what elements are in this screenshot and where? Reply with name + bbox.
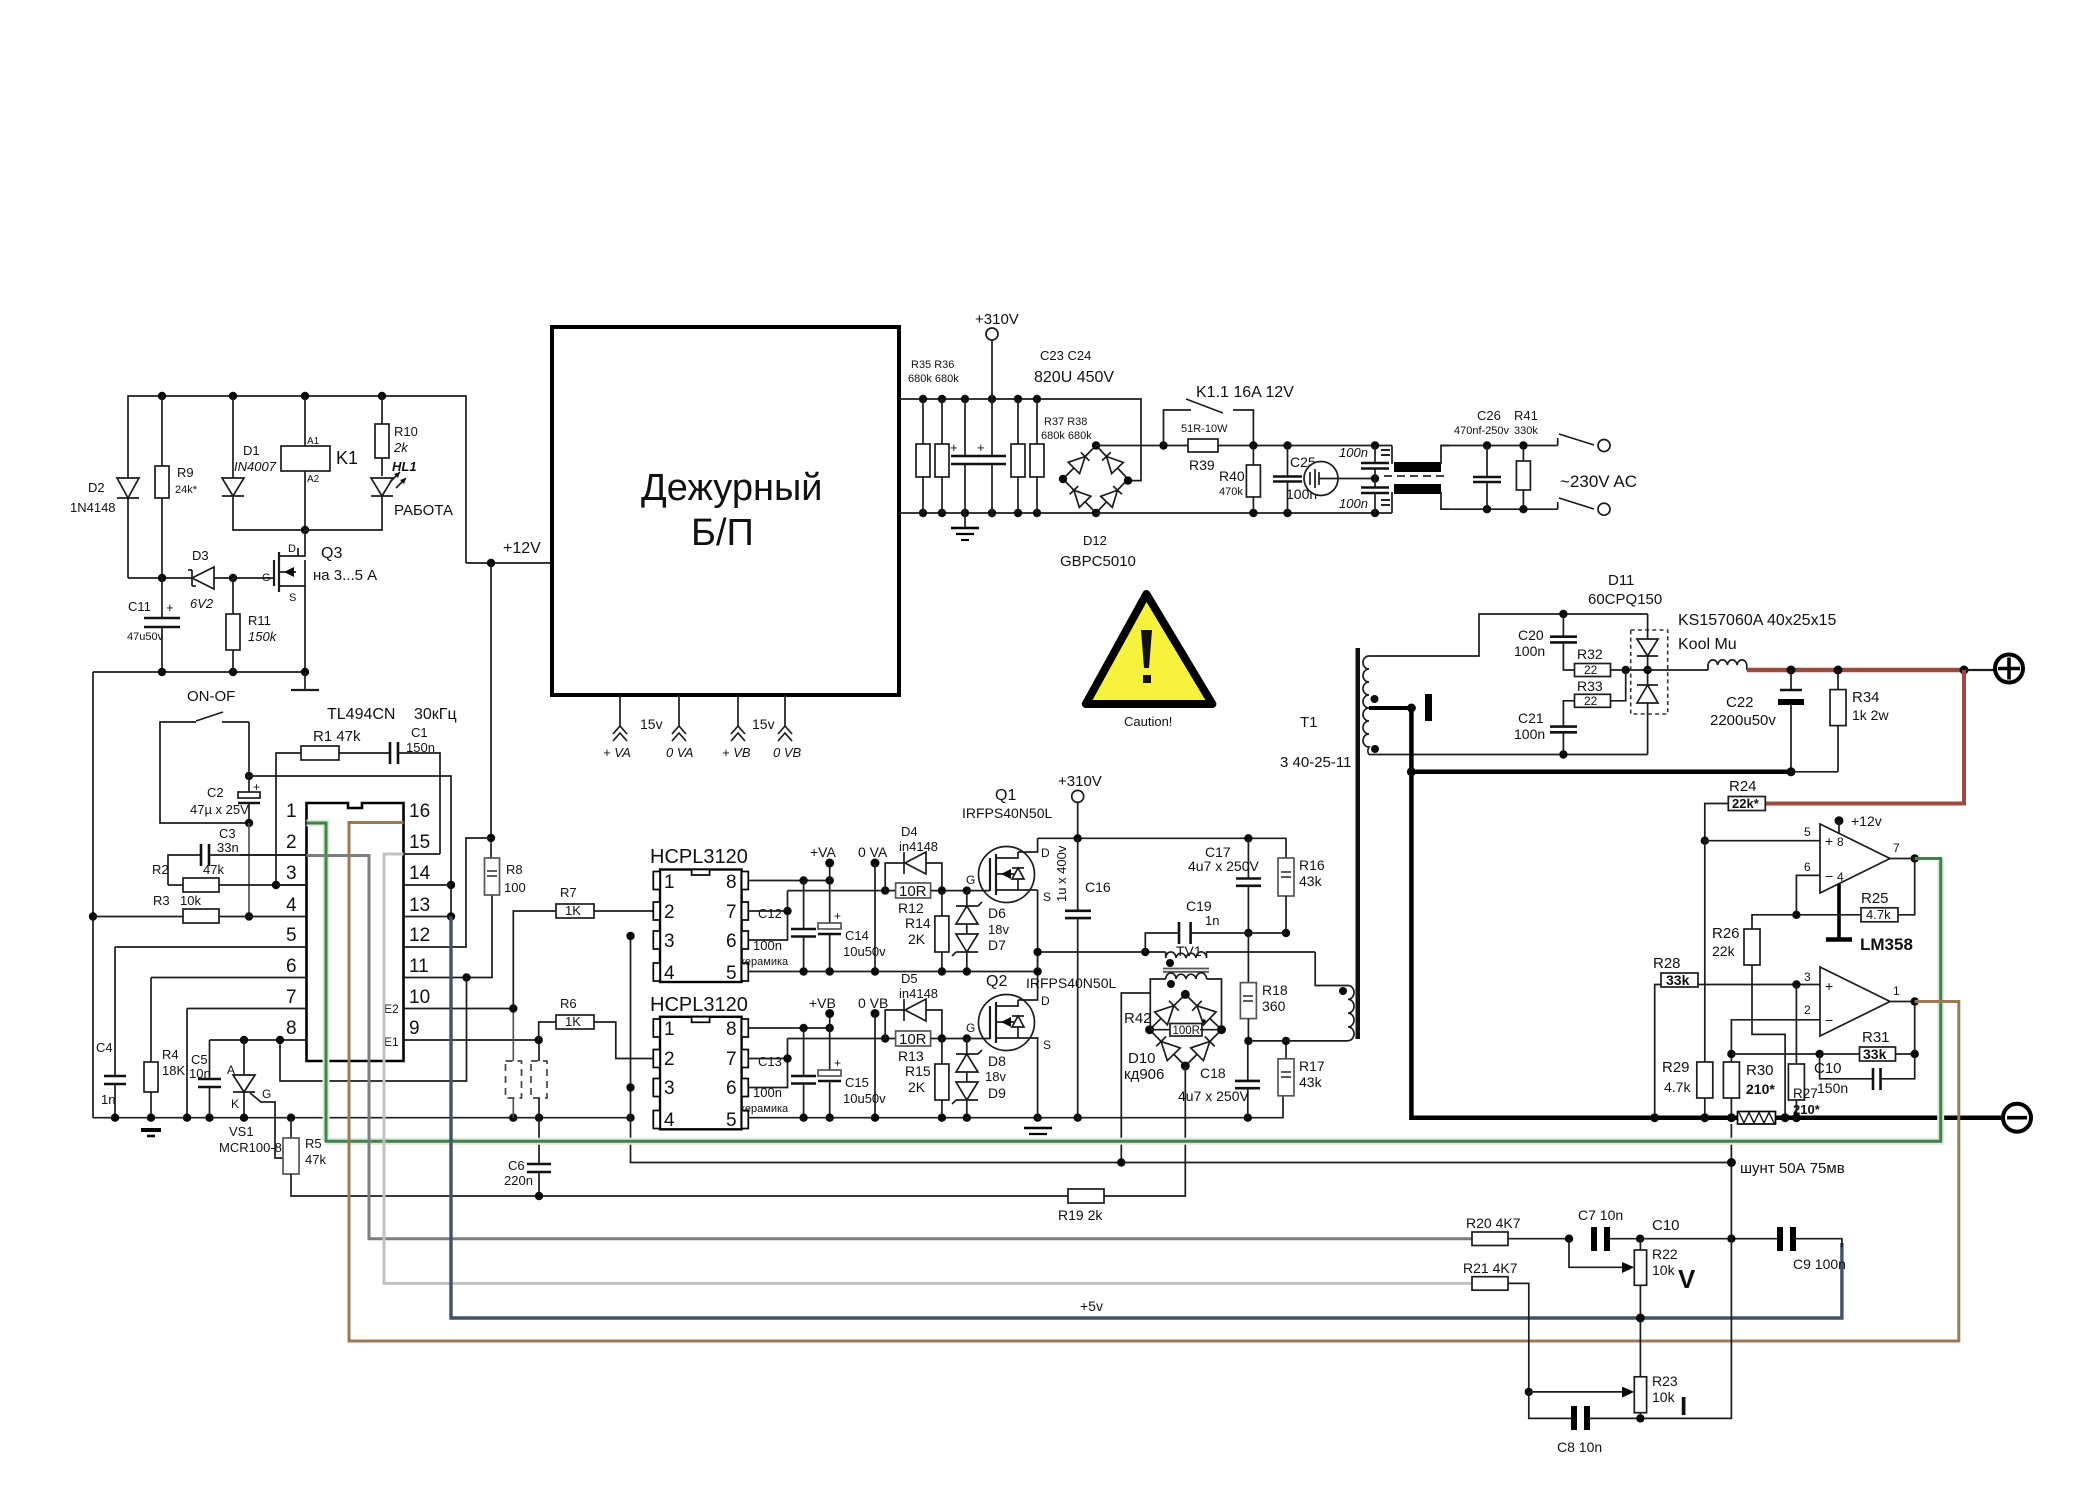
node pin6/R25/R26 — [1792, 911, 1800, 919]
svg-text:+: + — [166, 600, 174, 615]
capacitor C12 — [740, 881, 816, 971]
inductor Kool Mu — [1678, 612, 1836, 670]
svg-text:47k: 47k — [305, 1152, 326, 1167]
svg-text:R14: R14 — [905, 915, 931, 931]
resistor R25 — [1796, 859, 1914, 923]
svg-text:9: 9 — [409, 1018, 420, 1039]
svg-text:K1: K1 — [336, 448, 358, 468]
zener D7 — [952, 905, 1009, 970]
svg-text:D2: D2 — [88, 480, 105, 495]
capacitor C13 — [740, 1028, 816, 1118]
caution triangle — [1086, 594, 1213, 729]
svg-text:R26: R26 — [1712, 925, 1740, 942]
resistor R1 — [276, 728, 390, 885]
svg-text:C22: C22 — [1726, 694, 1754, 711]
svg-text:D3: D3 — [192, 548, 209, 563]
capacitor C3 — [168, 826, 307, 885]
svg-text:S: S — [1043, 890, 1051, 904]
wire pin8 row B — [748, 1027, 829, 1029]
LED HL1 — [305, 459, 453, 530]
svg-text:−: − — [1825, 868, 1833, 884]
resistor R35 — [916, 399, 930, 513]
svg-text:C26: C26 — [1477, 408, 1501, 423]
zener D9 — [952, 1053, 1006, 1118]
wire 0VA row A — [748, 890, 1037, 972]
resistor R5 — [283, 1118, 1068, 1196]
capacitor C17 — [1188, 838, 1261, 933]
svg-text:10: 10 — [409, 987, 430, 1008]
svg-text:470k: 470k — [1219, 486, 1243, 498]
zener D3 — [188, 548, 274, 611]
svg-text:керамика: керамика — [740, 956, 789, 968]
svg-text:8: 8 — [726, 1019, 737, 1040]
svg-text:+: + — [1825, 833, 1833, 849]
wire R39 row — [1096, 445, 1188, 447]
svg-text:C3: C3 — [219, 826, 236, 841]
svg-text:D9: D9 — [988, 1085, 1006, 1101]
capacitor C10 — [1814, 1054, 1915, 1096]
capacitor C5 — [189, 1040, 221, 1118]
svg-text:+ VA: + VA — [603, 745, 631, 760]
svg-text:+5v: +5v — [1080, 1298, 1103, 1314]
svg-text:1K: 1K — [565, 1014, 581, 1029]
svg-text:3: 3 — [664, 1078, 675, 1099]
svg-text:K1.1 16A 12V: K1.1 16A 12V — [1196, 384, 1294, 401]
capacitor C26 — [1454, 408, 1510, 509]
svg-text:30кГц: 30кГц — [414, 706, 457, 723]
svg-text:10n: 10n — [189, 1066, 211, 1081]
MOSFET Q1 — [962, 787, 1052, 904]
svg-text:Kool Mu: Kool Mu — [1678, 636, 1737, 653]
svg-text:R23: R23 — [1652, 1373, 1678, 1389]
dots on 0V rail — [1650, 1113, 1659, 1122]
svg-text:C9 100n: C9 100n — [1793, 1256, 1846, 1272]
svg-text:15: 15 — [409, 832, 430, 853]
AC terminal bottom — [1558, 498, 1610, 515]
svg-text:R7: R7 — [560, 885, 577, 900]
svg-text:R13: R13 — [898, 1048, 924, 1064]
svg-text:2K: 2K — [908, 931, 926, 947]
svg-text:E2: E2 — [384, 1002, 399, 1016]
ground Q3 — [291, 672, 319, 690]
svg-text:10k: 10k — [180, 893, 201, 908]
svg-text:+310V: +310V — [975, 311, 1019, 328]
wire mains bottom rail right — [1096, 512, 1392, 514]
svg-text:R42: R42 — [1124, 1010, 1152, 1027]
gate row wire — [128, 577, 192, 579]
resistor R6 — [539, 996, 653, 1059]
svg-text:IRFPS40N50L: IRFPS40N50L — [962, 805, 1052, 821]
wire pin8 row A — [748, 880, 829, 882]
svg-text:4: 4 — [664, 963, 675, 984]
svg-text:V: V — [1678, 1264, 1696, 1294]
svg-text:Q1: Q1 — [995, 787, 1016, 804]
svg-text:C14: C14 — [845, 928, 869, 943]
wire top rail — [128, 396, 466, 563]
wire HV top rail — [899, 399, 1141, 481]
svg-text:1: 1 — [664, 872, 675, 893]
svg-text:6: 6 — [726, 1078, 737, 1099]
svg-text:14: 14 — [409, 863, 431, 884]
svg-text:R34: R34 — [1852, 689, 1880, 706]
wire brown I-set — [349, 823, 1959, 1342]
svg-text:−: − — [1825, 1012, 1833, 1028]
svg-text:D7: D7 — [988, 937, 1006, 953]
svg-text:2k: 2k — [393, 440, 409, 455]
svg-text:51R-10W: 51R-10W — [1181, 423, 1228, 435]
svg-text:0 VB: 0 VB — [858, 995, 888, 1011]
MOSFET Q2 — [938, 952, 1051, 1118]
svg-text:+: + — [977, 440, 985, 455]
connector 0VB — [778, 695, 792, 741]
svg-text:47k: 47k — [203, 862, 224, 877]
wire 0VB rail — [748, 1096, 1283, 1118]
relay contact K1.1 — [1164, 384, 1295, 446]
thick 0V rail top — [1411, 770, 1791, 775]
svg-text:7: 7 — [1893, 841, 1900, 855]
zener D6 — [956, 891, 982, 924]
svg-text:HL1: HL1 — [392, 459, 417, 474]
terminal +VB — [809, 995, 836, 1028]
svg-text:IRFPS40N50L: IRFPS40N50L — [1026, 975, 1116, 991]
diode D1 — [222, 396, 305, 530]
svg-text:D: D — [1041, 994, 1050, 1008]
svg-text:РАБОТА: РАБОТА — [394, 502, 453, 519]
svg-text:C1: C1 — [411, 725, 428, 740]
svg-text:150n: 150n — [1817, 1080, 1848, 1096]
resistor R39 — [1181, 423, 1288, 473]
svg-text:4: 4 — [1837, 870, 1844, 884]
svg-text:6: 6 — [726, 931, 737, 952]
svg-text:100n: 100n — [753, 938, 782, 953]
svg-text:11: 11 — [409, 956, 429, 977]
capacitor C2 — [190, 776, 260, 823]
svg-text:680k 680k: 680k 680k — [1041, 430, 1092, 442]
svg-text:D8: D8 — [988, 1053, 1006, 1069]
svg-text:5: 5 — [726, 963, 737, 984]
svg-text:D6: D6 — [988, 905, 1006, 921]
wire pin13 — [404, 916, 452, 918]
svg-text:R11: R11 — [248, 613, 271, 628]
capacitor C18 — [1178, 1041, 1260, 1118]
Y-cap symbol — [1304, 462, 1375, 496]
zener D8 — [956, 1039, 982, 1073]
svg-text:D: D — [288, 543, 296, 555]
svg-text:in4148: in4148 — [899, 986, 938, 1001]
resistor R41 — [1514, 408, 1538, 509]
svg-text:Q3: Q3 — [321, 545, 342, 562]
svg-text:A: A — [227, 1063, 235, 1077]
svg-text:18K: 18K — [162, 1063, 185, 1078]
svg-text:5: 5 — [726, 1110, 737, 1131]
pot R22 V — [1569, 1239, 1696, 1318]
svg-text:+12V: +12V — [503, 540, 541, 557]
svg-text:13: 13 — [409, 895, 430, 916]
svg-text:5: 5 — [1804, 825, 1811, 839]
svg-text:R3: R3 — [153, 893, 170, 908]
svg-text:R27: R27 — [1793, 1086, 1818, 1101]
dashed resistor E1 — [531, 1040, 547, 1118]
bottom row wire — [93, 671, 305, 673]
svg-text:C10: C10 — [1814, 1060, 1842, 1077]
svg-text:210*: 210* — [1746, 1081, 1775, 1097]
svg-text:C13: C13 — [758, 1054, 782, 1069]
svg-text:VS1: VS1 — [229, 1124, 254, 1139]
svg-text:C15: C15 — [845, 1075, 869, 1090]
resistor R27 — [1788, 985, 1820, 1118]
relay coil K1 — [281, 396, 358, 530]
terminal 0VA — [858, 844, 888, 970]
svg-text:1N4148: 1N4148 — [70, 500, 116, 515]
svg-text:43k: 43k — [1299, 873, 1323, 889]
capacitor C9 — [1780, 1227, 1846, 1272]
svg-text:R6: R6 — [560, 996, 577, 1011]
svg-text:6V2: 6V2 — [190, 596, 214, 611]
resistor R38 — [1030, 399, 1044, 513]
resistor R28 — [1653, 955, 1698, 1118]
svg-text:18v: 18v — [988, 922, 1009, 937]
svg-text:R25: R25 — [1861, 890, 1889, 907]
svg-text:D10: D10 — [1128, 1050, 1156, 1067]
svg-text:R20 4K7: R20 4K7 — [1466, 1215, 1521, 1231]
thick + rail — [1747, 668, 1964, 673]
shunt sense vertical — [1730, 1124, 1732, 1239]
svg-text:6: 6 — [286, 956, 297, 977]
svg-text:K: K — [231, 1097, 239, 1111]
svg-text:IN4007: IN4007 — [234, 459, 277, 474]
svg-text:~230V AC: ~230V AC — [1560, 472, 1637, 491]
resistor R11 — [226, 578, 278, 672]
wire green feedback — [307, 823, 1941, 1141]
wire pin8-pin11 bypass — [280, 978, 467, 1082]
svg-text:18v: 18v — [985, 1069, 1006, 1084]
wire pin11 to R8 — [404, 895, 493, 978]
svg-text:D: D — [1041, 846, 1050, 860]
svg-text:+: + — [253, 780, 260, 794]
resistor R33 — [1575, 670, 1626, 708]
wire pins 6-7 tie B — [748, 1058, 787, 1060]
resistor R4 — [144, 978, 185, 1118]
svg-text:60CPQ150: 60CPQ150 — [1588, 591, 1662, 608]
svg-text:I: I — [1680, 1391, 1687, 1421]
svg-text:1K: 1K — [565, 903, 581, 918]
wire +12V down to R8 — [490, 563, 492, 858]
svg-text:in4148: in4148 — [899, 839, 938, 854]
bridge rectifier D12 — [1060, 446, 1136, 571]
svg-text:100n: 100n — [1339, 496, 1368, 511]
svg-text:R15: R15 — [905, 1063, 931, 1079]
svg-text:2200u50v: 2200u50v — [1710, 712, 1776, 729]
wire pin14 — [404, 884, 452, 886]
capacitor C25 — [1273, 446, 1317, 514]
svg-text:47µ x 25V: 47µ x 25V — [190, 802, 249, 817]
svg-text:R8: R8 — [506, 862, 523, 877]
wire gate row A — [788, 890, 896, 892]
svg-text:220n: 220n — [504, 1173, 533, 1188]
resistor R36 — [935, 399, 949, 513]
svg-text:680k 680k: 680k 680k — [908, 373, 959, 385]
svg-text:8: 8 — [286, 1018, 297, 1039]
opamp LM358 A — [1705, 813, 1900, 940]
svg-text:C6: C6 — [508, 1158, 525, 1173]
resistor R9 — [155, 396, 198, 578]
bridge D10 — [1150, 994, 1222, 1066]
wire R19 feed — [1121, 993, 1150, 1163]
svg-text:R4: R4 — [162, 1047, 179, 1062]
+12V rail wire — [466, 562, 552, 564]
svg-text:22: 22 — [1584, 694, 1598, 708]
svg-text:D5: D5 — [901, 971, 918, 986]
svg-text:10R: 10R — [899, 1031, 927, 1048]
svg-text:2K: 2K — [908, 1079, 926, 1095]
resistor R32 — [1575, 646, 1648, 677]
resistor R21 — [1463, 1260, 1529, 1392]
left vertical wire — [92, 672, 94, 1118]
svg-text:47u50v: 47u50v — [127, 631, 164, 643]
terminal plus — [1995, 655, 2023, 683]
svg-text:C12: C12 — [758, 906, 782, 921]
svg-text:D11: D11 — [1608, 572, 1634, 589]
svg-text:KS157060A 40x25x15: KS157060A 40x25x15 — [1678, 612, 1836, 629]
wire pin12 to +12V — [404, 838, 492, 947]
IC HCPL3120 A — [650, 846, 748, 984]
svg-text:C2: C2 — [207, 785, 224, 800]
svg-text:1n: 1n — [1205, 913, 1219, 928]
svg-text:D12: D12 — [1083, 533, 1107, 548]
svg-text:C7 10n: C7 10n — [1578, 1207, 1623, 1223]
svg-text:R9: R9 — [177, 465, 194, 480]
wire to inductor — [1648, 669, 1708, 671]
svg-text:D1: D1 — [243, 443, 260, 458]
svg-text:7: 7 — [726, 902, 737, 923]
svg-text:7: 7 — [286, 987, 297, 1008]
ground symbol R4 — [141, 1130, 161, 1136]
svg-text:на 3...5 А: на 3...5 А — [313, 567, 377, 584]
wire AC bottom row — [1441, 508, 1558, 510]
svg-text:C16: C16 — [1085, 879, 1111, 895]
resistor R19 — [1058, 1189, 1104, 1223]
svg-text:D4: D4 — [901, 824, 918, 839]
resistor R2 — [152, 862, 307, 892]
svg-text:3: 3 — [664, 931, 675, 952]
wire AC top row — [1441, 445, 1558, 447]
wire rail to chokes — [1288, 445, 1393, 447]
svg-text:T1: T1 — [1300, 714, 1318, 731]
resistor R31 — [1731, 1002, 1914, 1063]
resistor R30 — [1723, 1054, 1775, 1118]
AC terminal top — [1558, 434, 1610, 452]
resistor R8 — [485, 858, 526, 895]
capacitor 100n lower — [1339, 479, 1389, 514]
terminal +310V (2) — [1058, 773, 1102, 838]
svg-text:33k: 33k — [1863, 1046, 1887, 1062]
resistor R7 — [513, 885, 653, 1009]
resistor R15 — [905, 1039, 949, 1118]
svg-text:3: 3 — [1804, 970, 1811, 984]
svg-text:кд906: кд906 — [1124, 1066, 1164, 1083]
svg-text:820U 450V: 820U 450V — [1034, 369, 1114, 386]
capacitor C20 — [1514, 614, 1577, 670]
svg-text:C8 10n: C8 10n — [1557, 1439, 1602, 1455]
wire HV rail to R16 — [1038, 838, 1286, 858]
wire mid rail to T1 primary top — [1315, 952, 1348, 986]
terminal minus — [2003, 1104, 2031, 1132]
svg-text:1: 1 — [1893, 984, 1900, 998]
svg-text:R10: R10 — [394, 424, 418, 439]
wire dark gray V-set — [307, 856, 1473, 1239]
diode D5 — [885, 971, 942, 1039]
svg-text:R39: R39 — [1189, 457, 1215, 473]
svg-text:150k: 150k — [248, 629, 278, 644]
capacitor C7 — [1578, 1207, 1640, 1251]
svg-text:+: + — [1825, 978, 1833, 994]
svg-text:A2: A2 — [307, 474, 320, 485]
svg-text:+: + — [834, 1056, 841, 1070]
svg-text:0 VB: 0 VB — [773, 745, 802, 760]
svg-text:R40: R40 — [1219, 468, 1245, 484]
svg-text:5: 5 — [286, 925, 297, 946]
svg-text:TV1: TV1 — [1176, 943, 1202, 959]
svg-text:A1: A1 — [307, 436, 320, 447]
IC TL494 box — [307, 706, 457, 1061]
wire HV bottom rail — [899, 512, 1096, 514]
wire pins 6-7 tie A — [748, 910, 787, 912]
capacitor C15 — [818, 1028, 886, 1118]
svg-text:15v: 15v — [640, 716, 663, 732]
svg-text:R32: R32 — [1577, 646, 1603, 662]
node dot K1 bottom — [301, 526, 309, 534]
svg-text:1n: 1n — [101, 1092, 115, 1107]
svg-text:100n: 100n — [1514, 643, 1545, 659]
box Дежурный Б/П — [552, 327, 899, 695]
svg-text:10u50v: 10u50v — [843, 1091, 886, 1106]
svg-text:10u50v: 10u50v — [843, 944, 886, 959]
resistor R17 — [1278, 1041, 1325, 1096]
capacitor C22 — [1710, 670, 1804, 772]
svg-text:1u x 400v: 1u x 400v — [1054, 845, 1069, 902]
diode D2 — [70, 478, 139, 578]
resistor R20 — [1466, 1215, 1569, 1246]
svg-text:33k: 33k — [1666, 972, 1690, 988]
transformer T1 secondary — [1363, 614, 1648, 755]
svg-text:12: 12 — [409, 925, 430, 946]
svg-text:150n: 150n — [406, 740, 435, 755]
svg-text:R16: R16 — [1299, 857, 1325, 873]
transformer T1 primary — [1280, 648, 1360, 1041]
svg-text:C18: C18 — [1200, 1065, 1226, 1081]
svg-text:10k: 10k — [1652, 1262, 1676, 1278]
capacitor C8 — [1529, 1239, 1732, 1455]
svg-text:шунт 50А 75мв: шунт 50А 75мв — [1740, 1160, 1845, 1177]
svg-text:4: 4 — [286, 895, 297, 916]
svg-text:+: + — [950, 440, 958, 455]
svg-text:2: 2 — [286, 832, 297, 853]
resistor R37 — [1011, 399, 1025, 513]
svg-text:100: 100 — [504, 880, 526, 895]
wire navy +5v — [451, 917, 1842, 1319]
resistor R34 — [1830, 670, 1889, 772]
svg-text:R1 47k: R1 47k — [313, 728, 361, 745]
capacitor C4 — [96, 947, 126, 1118]
svg-text:22: 22 — [1584, 663, 1598, 677]
capacitor C24 — [977, 399, 1006, 513]
svg-text:360: 360 — [1262, 998, 1286, 1014]
svg-text:Q2: Q2 — [986, 973, 1007, 990]
svg-text:Дежурный: Дежурный — [641, 467, 823, 509]
svg-text:7: 7 — [726, 1049, 737, 1070]
svg-text:10k: 10k — [1652, 1389, 1676, 1405]
svg-text:G: G — [966, 873, 975, 887]
